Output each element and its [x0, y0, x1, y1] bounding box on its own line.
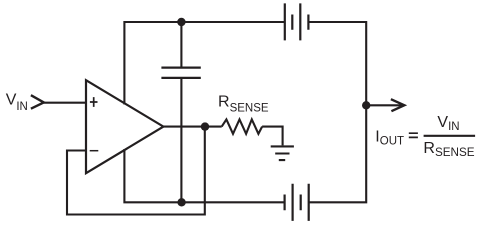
wire bottom battery to right column [309, 105, 367, 202]
wire minus input and feedback loop [67, 127, 205, 215]
resistor RSENSE [222, 119, 262, 133]
capacitor C1 top lead [180, 22, 182, 67]
capacitor C1 bottom lead [180, 79, 182, 202]
input chevron VIN [31, 95, 44, 109]
capacitor C1 [161, 68, 200, 78]
ground [271, 146, 294, 160]
wire op-amp V- pin and bottom rail [124, 149, 284, 202]
wire top battery to right column [308, 22, 366, 106]
wire op-amp output [163, 126, 221, 128]
fraction bar [424, 135, 476, 137]
op-amp minus sign [90, 150, 99, 152]
svg-text:RSENSE: RSENSE [218, 93, 269, 114]
op-amp U1 [86, 80, 163, 173]
svg-text:VIN: VIN [437, 114, 459, 133]
node junction dot top rail [177, 18, 185, 26]
svg-text:RSENSE: RSENSE [423, 140, 474, 159]
svg-text:IOUT: IOUT [375, 128, 404, 147]
output arrow head [391, 99, 404, 111]
wire op-amp V+ pin and top rail [124, 22, 284, 105]
equals sign [409, 133, 418, 137]
op-amp plus sign [90, 97, 98, 107]
svg-text:VIN: VIN [6, 92, 28, 113]
wire resistor to ground [262, 127, 283, 146]
battery B1 (top) [285, 3, 309, 40]
node junction dot IOUT [362, 101, 370, 109]
node junction dot output [201, 122, 209, 130]
node junction dot bottom rail [177, 198, 185, 206]
wire output arrow shaft [366, 104, 403, 106]
battery B2 (bottom) [285, 184, 309, 221]
wire VIN to op-amp + input [44, 102, 86, 104]
